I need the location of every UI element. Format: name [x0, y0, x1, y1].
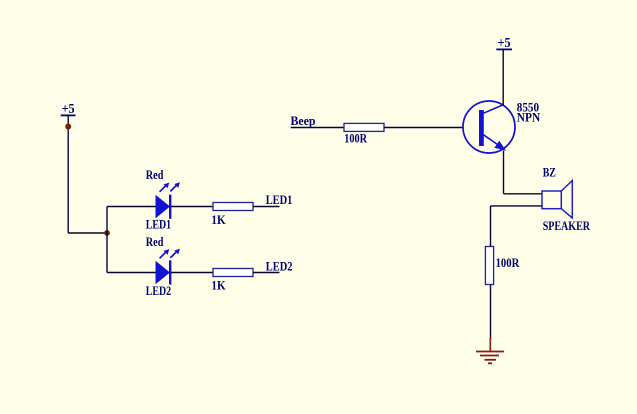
- LED LED1: [156, 195, 171, 219]
- svg-text:LED1: LED1: [266, 193, 293, 207]
- svg-text:1K: 1K: [211, 213, 225, 227]
- svg-text:1K: 1K: [211, 279, 225, 293]
- wire R1 to net LED1: [253, 206, 280, 208]
- power +5 (left): [61, 101, 76, 116]
- svg-text:+5: +5: [62, 101, 75, 116]
- svg-text:BZ: BZ: [543, 165, 556, 179]
- wire speaker bottom terminal left: [491, 205, 543, 207]
- svg-text:LED1: LED1: [146, 218, 171, 232]
- LED LED2: [156, 260, 171, 284]
- svg-text:100R: 100R: [496, 256, 521, 270]
- light arrows LED1: [160, 182, 180, 192]
- wire LED branch vertical: [106, 207, 108, 273]
- svg-text:100R: 100R: [344, 132, 368, 146]
- svg-text:LED2: LED2: [266, 259, 293, 273]
- wire down to R4: [490, 206, 492, 247]
- resistor R4 100R (vertical): [485, 247, 493, 285]
- junction dot LED branch: [104, 230, 110, 236]
- wire R3 to base: [384, 127, 464, 129]
- wire emitter down: [503, 151, 505, 194]
- wire R2 to net LED2: [253, 272, 280, 274]
- wire Beep to R3: [291, 127, 344, 129]
- wire +5 right to collector: [502, 49, 504, 105]
- wire LED1 cathode to R1: [171, 206, 213, 208]
- wire to LED2 anode: [107, 272, 156, 274]
- resistor R3 100R (base): [344, 123, 384, 131]
- speaker BZ: [542, 181, 572, 219]
- transistor Q1 8550: [463, 101, 515, 153]
- svg-text:Red: Red: [146, 235, 164, 249]
- ground: [476, 338, 504, 363]
- light arrows LED2: [160, 249, 180, 259]
- wire LED2 cathode to R2: [171, 272, 213, 274]
- resistor R2 1K: [213, 269, 253, 277]
- junction dot below left +5: [65, 124, 71, 130]
- wire emitter to speaker top terminal: [504, 193, 543, 195]
- wire +5 left vertical: [67, 115, 69, 233]
- svg-text:+5: +5: [498, 35, 511, 50]
- resistor R1 1K: [213, 203, 253, 211]
- wire to LED1 anode: [107, 206, 156, 208]
- wire horizontal to LED branch: [68, 232, 107, 234]
- wire R4 to ground: [490, 285, 492, 341]
- svg-text:LED2: LED2: [146, 284, 171, 298]
- svg-text:NPN: NPN: [517, 111, 540, 125]
- power +5 (right): [496, 35, 512, 50]
- svg-text:Beep: Beep: [291, 114, 316, 128]
- svg-text:Red: Red: [146, 168, 164, 182]
- svg-text:SPEAKER: SPEAKER: [543, 219, 591, 233]
